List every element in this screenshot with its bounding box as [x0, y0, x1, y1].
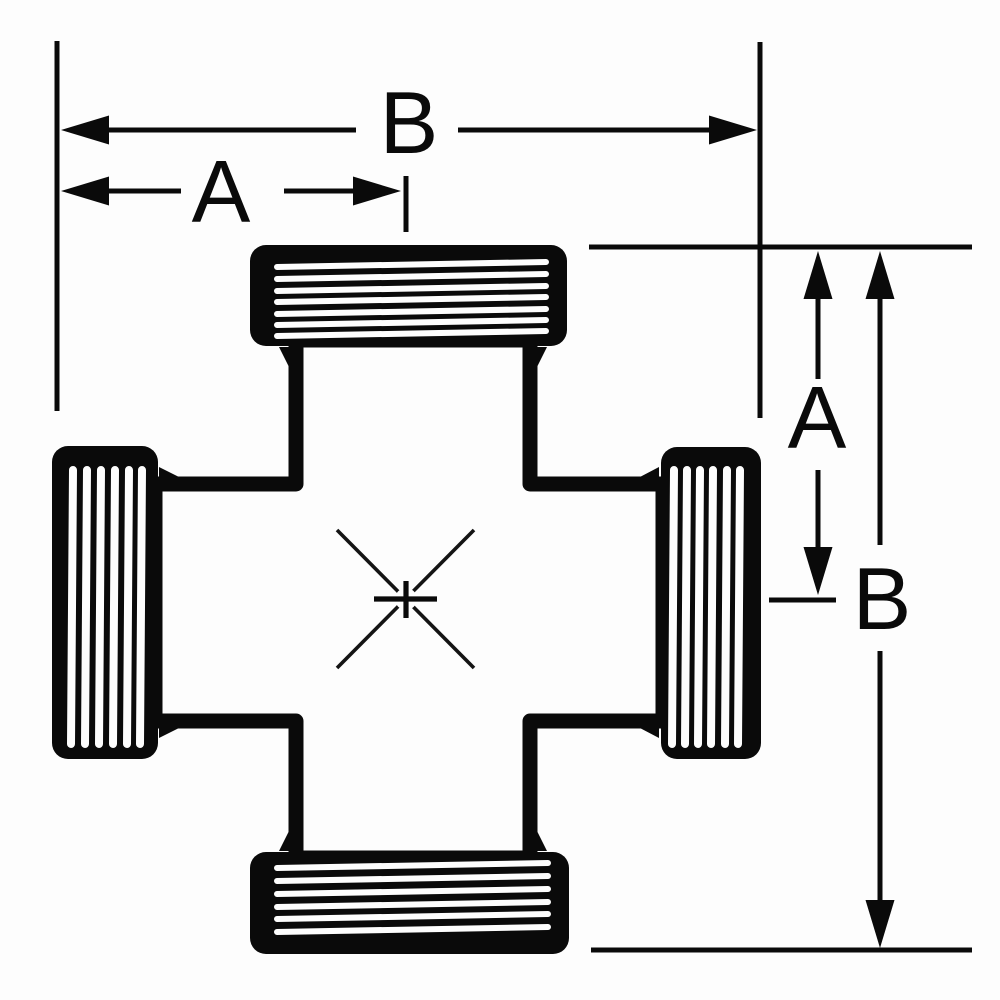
svg-text:A: A — [788, 368, 847, 467]
svg-text:B: B — [853, 549, 912, 648]
svg-text:B: B — [380, 73, 439, 172]
svg-text:A: A — [192, 142, 251, 241]
